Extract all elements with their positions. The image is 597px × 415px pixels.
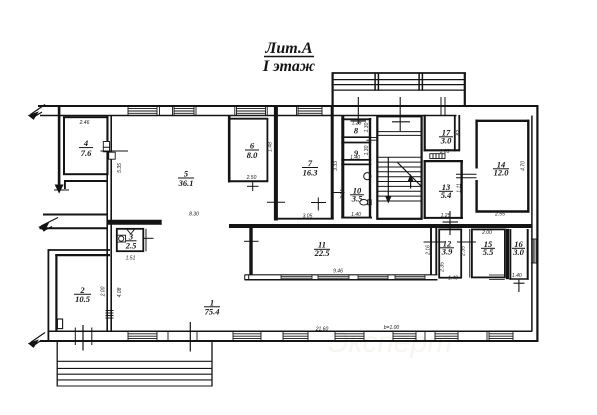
tick wall 6-7 — [267, 201, 285, 203]
svg-text:4.70: 4.70 — [521, 161, 527, 171]
window under room15 — [489, 275, 505, 280]
svg-text:1.25: 1.25 — [441, 213, 451, 219]
svg-text:2.35: 2.35 — [460, 246, 466, 257]
room 10 fraction line — [350, 194, 364, 196]
window room11 w2 — [318, 275, 349, 280]
window bottom B1 — [128, 331, 157, 341]
room 7 fraction line — [302, 167, 318, 169]
passage wall upper — [43, 214, 107, 216]
window bottom B3 — [283, 331, 308, 341]
dim 2.00 vertical room2 — [100, 286, 106, 297]
dim 1.11 vertical room13 — [456, 183, 462, 193]
door tick below room16 — [514, 280, 525, 292]
room 14 box — [476, 120, 530, 213]
svg-text:2.00: 2.00 — [481, 230, 492, 236]
tick at left wall arrow — [54, 189, 69, 191]
room 16 label — [512, 239, 524, 257]
bottom wall inner line — [48, 330, 532, 332]
dim 2.16 vertical — [425, 245, 431, 256]
room 13 box — [424, 160, 463, 219]
window W3 top wall — [237, 106, 266, 116]
dim 3.33 vertical room7 — [333, 161, 339, 171]
svg-text:4: 4 — [83, 138, 88, 148]
svg-text:1.40: 1.40 — [448, 275, 458, 281]
dim 4.08 vertical room1 — [117, 287, 123, 297]
dim 1.25 corridor — [0, 0, 1, 1]
room 7 label — [303, 158, 319, 178]
stair diagonal cut — [398, 163, 422, 187]
room 2 fraction line — [74, 293, 91, 295]
right wall inner — [531, 116, 533, 332]
dim 1.40 room9 — [350, 155, 360, 161]
vestibule box below room 4 — [64, 180, 107, 189]
room 11 fraction line — [314, 248, 330, 250]
window room11 w1 — [281, 275, 312, 280]
room 14 label — [494, 160, 510, 178]
entrance arrow bottom-left — [29, 333, 45, 348]
room 4 fraction line — [79, 147, 93, 149]
pier P1 — [160, 106, 173, 116]
dim 1.30 room8 vertical — [364, 122, 370, 132]
room 5 label — [178, 169, 194, 189]
room 11 bottom wall lines — [245, 275, 438, 280]
room 12 fraction line — [440, 247, 454, 249]
door tick room1 exit — [189, 322, 191, 352]
pier P2 — [196, 106, 235, 116]
top wall inner line — [40, 115, 457, 117]
stair landing line — [377, 134, 421, 136]
wall rooms 8-9 — [341, 137, 371, 142]
svg-text:1.11: 1.11 — [456, 183, 462, 193]
dim 2.46 — [79, 120, 90, 126]
lower-left block outer left wall — [47, 249, 49, 341]
room 1 fraction line — [204, 306, 220, 308]
svg-text:1.51: 1.51 — [126, 256, 136, 262]
door room4-room5 swing line — [101, 150, 129, 152]
room 12 box — [439, 229, 461, 277]
corridor wall segment B — [229, 224, 532, 228]
room 3 door jamb — [145, 229, 147, 251]
svg-text:6: 6 — [250, 141, 255, 151]
svg-text:2.35: 2.35 — [440, 262, 446, 273]
svg-text:1.30: 1.30 — [364, 145, 370, 155]
wall black rooms 15-16 — [506, 229, 509, 279]
pier bottom b2 — [424, 331, 426, 341]
stair vestibule line — [377, 131, 421, 133]
right wall outer — [536, 105, 538, 342]
passage wall lower — [40, 227, 108, 229]
svg-text:16.3: 16.3 — [303, 168, 319, 178]
lower-left block outer top wall — [48, 249, 111, 251]
wall rooms 8-9-10 left — [341, 116, 344, 219]
svg-text:Лит.А: Лит.А — [264, 40, 313, 57]
room 6 fraction line — [245, 149, 259, 151]
window bottom B5 — [393, 331, 416, 341]
stair up arrow — [408, 174, 414, 189]
door ticks room2 exit — [75, 325, 92, 351]
svg-text:4.08: 4.08 — [117, 287, 123, 297]
entrance arrow down — [55, 185, 62, 193]
sink room 3 — [117, 235, 126, 242]
door hatch room2-room1 — [106, 311, 114, 319]
svg-text:7: 7 — [308, 158, 313, 168]
rooms 8-9-10 right wall — [369, 118, 371, 219]
room 11 left wall — [249, 228, 252, 275]
svg-text:1.40: 1.40 — [351, 212, 361, 218]
dim 8.30 — [189, 212, 199, 218]
room 11 bottom wall cap — [245, 275, 249, 280]
svg-text:8.30: 8.30 — [189, 212, 199, 218]
left wall upper block — [58, 107, 61, 186]
watermark — [328, 326, 453, 359]
room 11 right wall — [431, 228, 436, 275]
svg-text:2.46: 2.46 — [79, 120, 90, 126]
room 6 label — [247, 141, 258, 161]
dim 2.55 room14 — [494, 211, 505, 217]
corridor wall segment A — [108, 220, 161, 225]
dim 1.51 — [126, 256, 136, 262]
door rooms 13-14 lines — [456, 174, 477, 178]
window right wall — [531, 239, 539, 263]
room 2 left wall — [55, 254, 57, 332]
svg-text:9.46: 9.46 — [333, 269, 343, 275]
room 3 label — [125, 232, 137, 251]
room 4 box — [64, 117, 108, 174]
wall rooms 5-6 — [228, 116, 231, 183]
tick rooms 12-15 — [457, 241, 476, 243]
wall rooms 6-7 — [274, 107, 278, 221]
pier bottom b3 — [486, 331, 488, 341]
dim 82 vertical room17 — [456, 130, 462, 136]
room 8 label — [354, 126, 359, 136]
pilaster room 2 — [57, 319, 62, 329]
porch step lines — [334, 80, 464, 91]
dim 4.70 vertical room14 — [521, 161, 527, 171]
window room11 w4 — [395, 275, 425, 280]
svg-text:10.5: 10.5 — [75, 294, 91, 304]
dim 2.35 vertical right — [460, 246, 466, 257]
dim 3.05 room7 — [303, 213, 313, 219]
dim 1.65 room17 — [440, 149, 450, 155]
dim 2.31 vertical room10 — [340, 189, 346, 200]
svg-text:2.16: 2.16 — [425, 245, 431, 256]
room 17 fraction line — [439, 136, 453, 138]
tick room 11 right wall — [424, 241, 445, 243]
dim 2.00 room15 — [481, 230, 492, 236]
window W1 top wall — [128, 106, 157, 116]
window W4 top wall — [298, 106, 322, 116]
dim 1.25 room13 — [441, 213, 451, 219]
window bottom B4 — [335, 331, 364, 341]
heater circle room 10 — [364, 173, 371, 180]
svg-text:8: 8 — [354, 126, 359, 136]
svg-text:2.5: 2.5 — [125, 241, 137, 251]
room 17 box — [424, 115, 460, 152]
room 13 label — [441, 182, 452, 200]
dim 1.28 room8 — [352, 121, 362, 127]
door hatch rooms8-9 right — [367, 138, 378, 141]
svg-text:1.48: 1.48 — [268, 142, 274, 152]
room 9 label — [354, 148, 359, 158]
door tick room12 top — [443, 211, 459, 235]
top wall outer line — [38, 105, 538, 107]
svg-text:1.40: 1.40 — [350, 155, 360, 161]
door tick stairwell top — [392, 97, 410, 131]
window room11 w3 — [358, 275, 388, 280]
room 3 door line — [143, 237, 153, 239]
dim 9.46 room11 — [333, 269, 343, 275]
tick room 11 left wall — [244, 240, 259, 242]
room 7 bottom wall — [278, 218, 334, 220]
svg-text:2.55: 2.55 — [494, 211, 505, 217]
room 17 label — [440, 128, 452, 146]
room 2 box top wall — [55, 254, 110, 256]
svg-text:3.05: 3.05 — [303, 213, 313, 219]
room 10 label — [351, 186, 363, 204]
room 3 fraction line — [126, 240, 137, 242]
room 2 label — [75, 285, 91, 304]
svg-text:5: 5 — [184, 169, 189, 179]
room 3 box — [117, 229, 144, 251]
door room4-room5 jambs — [103, 142, 115, 160]
svg-text:82: 82 — [456, 130, 462, 136]
dim 1.40 room10 — [351, 212, 361, 218]
door tick below room 6 — [247, 181, 259, 191]
tick shaft wall 7-10 — [331, 192, 345, 194]
svg-text:5.35: 5.35 — [117, 163, 123, 173]
room 10 bottom wall — [341, 217, 372, 219]
room 16 fraction line — [512, 247, 525, 249]
porch top outline — [332, 73, 467, 107]
svg-text:2.00: 2.00 — [100, 286, 106, 297]
dim 2.50 room6 — [246, 175, 257, 181]
room 14 fraction line — [493, 168, 509, 170]
room 12 label — [441, 239, 453, 257]
svg-text:1.30: 1.30 — [364, 122, 370, 132]
door tick room7 bottom — [311, 198, 326, 211]
svg-text:2.31: 2.31 — [340, 189, 346, 200]
dim 2.35 vertical left — [440, 262, 446, 273]
room 8 top wall — [341, 118, 371, 120]
entrance arrow top-left — [29, 105, 45, 120]
room 5 fraction line — [178, 177, 194, 179]
title Лит.А — [264, 40, 313, 57]
interior thick wall x108 — [107, 116, 111, 331]
svg-text:75.4: 75.4 — [205, 307, 220, 317]
room 15 box — [472, 229, 505, 277]
window bottom B2 — [233, 331, 261, 341]
room 15 fraction line — [481, 247, 495, 249]
dim 1.40 room12 — [448, 275, 458, 281]
title I этаж — [262, 58, 315, 75]
dim 5.35 vertical — [117, 163, 123, 173]
title underline — [264, 56, 314, 58]
bottom wall outer line — [40, 340, 539, 342]
wall rooms 9-10 — [341, 160, 371, 165]
svg-text:3.33: 3.33 — [333, 161, 339, 171]
stair treads — [377, 157, 421, 201]
window bottom B7 — [489, 331, 513, 341]
svg-text:b=1.00: b=1.00 — [384, 325, 400, 331]
pier P3 — [267, 106, 296, 116]
dim b=1.00 — [384, 325, 400, 331]
entrance arrow left-middle — [40, 218, 59, 232]
corridor wall A end cap — [160, 220, 162, 225]
dim 21.60 — [315, 326, 329, 332]
window W2 top wall — [174, 106, 194, 116]
door tick room8 top — [351, 97, 367, 124]
room 16 box — [509, 229, 528, 280]
toilet room 10 — [360, 200, 371, 206]
room 15 label — [483, 239, 494, 257]
steps block right edge — [211, 342, 213, 387]
stair down arrow — [385, 157, 391, 204]
stairwell box — [377, 116, 421, 219]
svg-text:1.40: 1.40 — [512, 273, 522, 279]
svg-text:7.6: 7.6 — [81, 148, 92, 158]
dim 1.40 room16 — [512, 273, 522, 279]
svg-text:36.1: 36.1 — [178, 178, 194, 188]
dim 1.48 vertical rooms6-7 — [268, 142, 274, 152]
toilet room 3 — [127, 229, 135, 234]
room 4 label — [81, 138, 92, 158]
room 11 label — [314, 240, 331, 259]
svg-text:I этаж: I этаж — [262, 58, 315, 75]
porch dividers — [375, 73, 422, 91]
room 1 label — [205, 298, 220, 317]
svg-text:8.0: 8.0 — [247, 150, 258, 160]
door jambs rooms 12-15 — [469, 229, 471, 278]
room 7 right wall — [331, 107, 334, 220]
steps block left edge — [56, 342, 58, 387]
room 13 fraction line — [439, 190, 453, 192]
door hatch rooms17-13 — [430, 154, 445, 159]
dim 1.30 room9 vertical — [364, 145, 370, 155]
window bottom B6 — [435, 331, 458, 341]
room 6 box — [231, 119, 269, 182]
door tick room17 top — [441, 97, 445, 116]
pier bottom b1 — [168, 331, 197, 341]
svg-text:2.50: 2.50 — [246, 175, 257, 181]
steps lines — [57, 361, 212, 386]
